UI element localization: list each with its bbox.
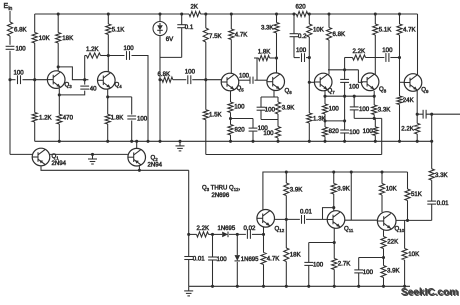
svg-text:51K: 51K <box>411 191 422 198</box>
svg-text:100: 100 <box>14 69 25 76</box>
Q5 emitter column <box>230 91 232 102</box>
wire <box>212 260 214 286</box>
svg-text:2.2K: 2.2K <box>401 126 414 133</box>
svg-text:6.8K: 6.8K <box>158 71 171 78</box>
wire <box>333 194 335 211</box>
wire Q4 emitter cap branch <box>108 96 132 98</box>
svg-text:100: 100 <box>349 83 360 90</box>
diode 1N695 horizontal <box>222 232 228 238</box>
wire Q1 emitter run <box>41 166 189 171</box>
wire Q8 base jog <box>358 70 362 83</box>
resistor 10K Q10 collector load <box>381 172 383 184</box>
wire <box>407 201 409 221</box>
capacitor 100 Q8 branch <box>350 106 359 108</box>
svg-text:1.8K: 1.8K <box>258 49 271 56</box>
svg-text:2.2K: 2.2K <box>353 48 366 55</box>
wire <box>381 195 383 212</box>
svg-text:1.2K: 1.2K <box>86 46 99 53</box>
capacitor 100 Q5 bypass <box>249 127 258 129</box>
wire Q6 collector <box>276 33 278 73</box>
svg-text:1.5K: 1.5K <box>209 112 222 119</box>
svg-text:E: E <box>4 3 9 10</box>
resistor 1.2K horizontal <box>85 55 87 57</box>
resistor 4.7K column Q9 <box>399 14 401 24</box>
Q6 emitter network <box>273 91 275 98</box>
svg-text:24K: 24K <box>403 97 414 104</box>
Q11 emitter network <box>333 228 335 258</box>
svg-text:1N695: 1N695 <box>241 257 259 263</box>
wire <box>181 28 183 58</box>
svg-text:5.1K: 5.1K <box>112 27 125 34</box>
resistor 2.2K chain <box>197 232 209 237</box>
resistor 5.1K column Q8 collector <box>374 14 376 24</box>
resistor 620 (series in rail) <box>296 11 307 16</box>
svg-text:1.8K: 1.8K <box>111 115 124 122</box>
svg-text:470: 470 <box>63 115 74 122</box>
svg-text:22K: 22K <box>387 239 398 246</box>
svg-text:6.8K: 6.8K <box>14 27 27 34</box>
svg-text:100: 100 <box>363 269 374 276</box>
svg-text:3.3K: 3.3K <box>261 25 274 32</box>
svg-text:3.9K: 3.9K <box>337 186 350 193</box>
svg-text:2N696: 2N696 <box>212 193 230 199</box>
wire <box>306 57 309 59</box>
wire 40pF to Q3 emitter <box>59 91 84 95</box>
resistor 100 Q5 emitter <box>228 102 233 113</box>
svg-text:0.2: 0.2 <box>298 33 307 40</box>
wire <box>399 105 401 142</box>
line Q12 collector bus <box>263 172 408 210</box>
svg-text:100: 100 <box>329 106 340 113</box>
bias chain wire <box>189 233 197 235</box>
wire <box>431 204 433 220</box>
wire <box>416 134 418 141</box>
resistor 3.3K column Q6 <box>276 14 278 23</box>
capacitor 100 Q6 left branch <box>260 97 262 107</box>
wire stub Q9 base <box>400 81 405 83</box>
wire <box>404 260 406 286</box>
svg-text:100: 100 <box>263 130 274 137</box>
wire to mid rail <box>34 122 36 141</box>
capacitor 100 interstage <box>187 75 189 84</box>
zener diode 6V column <box>159 14 161 22</box>
wire <box>229 233 246 235</box>
capacitor 100 to Q9 base <box>385 53 387 62</box>
svg-text:100: 100 <box>16 45 27 52</box>
wire <box>308 37 310 113</box>
svg-text:18K: 18K <box>290 252 301 259</box>
resistor 3.9K Q6 right branch <box>277 97 279 102</box>
wire Q11 bypass branch <box>309 242 335 244</box>
svg-text:4.7K: 4.7K <box>267 256 280 263</box>
svg-text:6V: 6V <box>166 36 174 43</box>
capacitor 100 column <box>212 234 214 257</box>
svg-text:4.7K: 4.7K <box>403 27 416 34</box>
svg-text:620: 620 <box>296 4 307 11</box>
wire to Q1 base <box>10 153 32 155</box>
svg-text:100: 100 <box>239 74 250 80</box>
wire input column <box>9 11 11 22</box>
wire riser to Q10 base link <box>350 172 352 220</box>
svg-text:10K: 10K <box>386 186 397 193</box>
wire rung lower <box>325 120 345 122</box>
transistor Q8 <box>361 73 379 91</box>
svg-text:7.5K: 7.5K <box>209 33 222 40</box>
Q7 emitter column <box>324 91 326 104</box>
resistor 5.1K <box>106 24 111 35</box>
ground mid rail <box>179 141 181 146</box>
svg-text:4.7K: 4.7K <box>235 32 248 39</box>
svg-text:10K: 10K <box>39 35 50 42</box>
Q3 emitter column <box>58 89 60 115</box>
resistor 10K <box>32 33 37 44</box>
wire Q12 base link to Q11 <box>275 218 300 220</box>
wire <box>188 260 190 287</box>
svg-text:820: 820 <box>329 128 340 135</box>
resistor 6.8K input <box>7 22 12 36</box>
resistor 3.9K Q11 load <box>333 172 335 184</box>
svg-text:0.01: 0.01 <box>437 200 449 207</box>
svg-text:10K: 10K <box>313 27 324 34</box>
diode 1N695 vertical <box>236 234 238 255</box>
wire rung Q7/Q8 emitters <box>325 95 374 97</box>
wire input column lower <box>9 51 11 155</box>
svg-text:3.3K: 3.3K <box>435 172 448 179</box>
wire <box>285 196 287 249</box>
wire <box>205 42 207 110</box>
capacitor 0.01 right column <box>427 200 436 202</box>
wire <box>58 124 60 141</box>
svg-text:100: 100 <box>349 129 360 136</box>
wire box bottom <box>261 119 278 121</box>
wire Q9 base column <box>399 35 401 96</box>
svg-text:3.3K: 3.3K <box>378 107 391 114</box>
svg-text:100: 100 <box>124 45 135 52</box>
resistor 10K column Q7 <box>308 14 310 24</box>
wire <box>324 114 326 127</box>
wire <box>306 218 327 220</box>
resistor 2.7K Q11 emitter <box>332 259 337 270</box>
svg-text:0.1: 0.1 <box>185 24 194 31</box>
transistor Q11 <box>327 211 345 229</box>
capacitor 0.1 column <box>181 14 183 25</box>
left bias column 10K/1.2K <box>34 14 36 33</box>
wire Q7 collector <box>328 40 330 74</box>
resistor 51K column <box>407 172 409 189</box>
wire <box>333 270 335 287</box>
svg-text:SeekIC.com: SeekIC.com <box>401 287 458 298</box>
top supply rail <box>35 13 189 15</box>
capacitor 0.2 column <box>293 14 295 34</box>
wire <box>209 233 223 235</box>
resistor 18K <box>56 33 61 44</box>
resistor 820 Q7 <box>322 127 327 137</box>
resistor 2.2K Q9 emitter <box>415 123 420 134</box>
svg-text:100: 100 <box>363 128 374 135</box>
wire 5.1K junction to 100 cap <box>108 55 124 57</box>
wire 7.5K column to lower bus <box>205 120 207 155</box>
wire Q8 collector <box>374 35 376 74</box>
transistor Q5 <box>221 73 239 91</box>
resistor 470 <box>57 114 62 124</box>
wire <box>308 265 310 286</box>
transistor Q3 <box>47 71 65 89</box>
wire <box>230 113 232 125</box>
wire <box>23 79 48 81</box>
svg-text:0.01: 0.01 <box>193 256 205 263</box>
wire branch up to Q11 collector node <box>323 208 334 220</box>
transistor Q4 <box>98 72 116 90</box>
wire <box>324 137 326 142</box>
resistor 4.7K column Q5 <box>230 14 232 29</box>
wire <box>358 273 360 286</box>
wire <box>293 37 295 58</box>
wire <box>107 35 109 72</box>
wire box bottom Q8 <box>354 117 382 119</box>
svg-text:100: 100 <box>217 256 228 263</box>
resistor 100 Q7 emitter <box>322 104 327 114</box>
svg-text:40: 40 <box>90 85 97 92</box>
transistor Q7 <box>314 73 332 91</box>
zener diode 6V in circle <box>153 22 167 36</box>
svg-text:1N695: 1N695 <box>218 226 236 232</box>
capacitor column 100/100 Q7 bypass <box>344 70 346 80</box>
svg-text:Q3 THRU Q12,: Q3 THRU Q12, <box>202 186 241 192</box>
wire <box>9 36 11 45</box>
wire 1.8K down to coupling node <box>256 58 258 80</box>
wire to Q10 collector node <box>396 219 432 221</box>
resistor 3.9K Q12 collector load <box>285 172 287 183</box>
capacitor 100 Q4 emitter <box>127 115 136 117</box>
svg-text:3.9K: 3.9K <box>290 187 303 194</box>
svg-text:1.2K: 1.2K <box>39 115 52 122</box>
svg-text:5.1K: 5.1K <box>379 27 392 34</box>
wire Q10 bypass branch <box>359 257 384 259</box>
resistor 3.9K Q10 lower <box>381 266 386 278</box>
svg-text:100: 100 <box>185 69 196 76</box>
wire to Q5 base <box>192 79 221 81</box>
capacitor 100 Q11 bypass <box>304 261 313 263</box>
resistor 1.8K <box>105 114 110 124</box>
wire 1.2K to 40pF branch <box>84 56 86 85</box>
resistor 3.3K right column <box>429 169 434 180</box>
wire <box>252 132 254 142</box>
Q10 emitter network <box>383 230 385 236</box>
wire bus riser <box>381 118 383 154</box>
wire Q5 base chain <box>160 79 162 81</box>
wire top rail right corner to Q9 collector <box>417 14 419 75</box>
svg-text:100: 100 <box>234 104 245 111</box>
wire <box>344 82 346 130</box>
svg-text:100: 100 <box>382 47 393 54</box>
svg-text:100: 100 <box>359 106 370 113</box>
wire <box>34 43 36 113</box>
svg-text:3.9K: 3.9K <box>282 105 295 112</box>
wire stub Q7 base <box>309 81 314 83</box>
capacitor 100 coupling <box>126 51 128 60</box>
capacitor 0.02 chain <box>246 230 248 239</box>
wire <box>366 57 385 59</box>
wire Q5 collector to Q6 base <box>239 79 250 81</box>
column 5.1K to Q4 <box>107 14 109 24</box>
wire <box>57 43 59 71</box>
resistor 18K <box>284 248 289 262</box>
capacitor 0.01 left column <box>188 234 190 256</box>
Q12 emitter network <box>263 227 265 253</box>
transistor Q2 <box>128 148 146 166</box>
svg-text:2K: 2K <box>191 4 198 11</box>
capacitor 100 upper <box>340 78 349 80</box>
lower bus wire <box>206 154 382 156</box>
svg-text:100: 100 <box>296 47 307 54</box>
wire <box>390 57 399 59</box>
resistor 1.2K vertical <box>32 113 37 123</box>
capacitor 0.01 link <box>301 215 303 224</box>
svg-text:6.8K: 6.8K <box>333 31 346 38</box>
svg-text:2.7K: 2.7K <box>338 261 351 268</box>
capacitor 100 Q5-Q6 coupling <box>249 77 251 84</box>
resistor 7.5K column <box>205 14 207 28</box>
wire Q2 emitter <box>138 166 140 170</box>
output coupling wire <box>417 113 423 115</box>
svg-text:0.01: 0.01 <box>300 209 312 216</box>
wire <box>344 133 346 141</box>
svg-text:2N94: 2N94 <box>148 162 163 169</box>
capacitor 100 Q10 bypass <box>354 269 363 271</box>
wire down to divider chain <box>188 170 190 234</box>
wire <box>107 124 109 141</box>
resistor 6.8K interstage <box>162 77 173 82</box>
wire Q2 collector stub <box>136 141 138 148</box>
wire <box>236 262 238 286</box>
collector column 18K <box>57 14 59 33</box>
resistor 10K output leg <box>404 220 406 248</box>
capacitor 100 Q7 base coupling <box>301 53 303 62</box>
mid ground rail <box>35 140 432 142</box>
resistor 2.2K interstage to Q9 <box>345 57 353 59</box>
wire Q3 base chain <box>10 79 16 81</box>
transistor Q12 <box>257 210 275 228</box>
resistor 1.8K feedback <box>270 57 277 59</box>
capacitor 100 input series <box>6 45 15 47</box>
transistor Q1 <box>32 148 50 166</box>
resistor 1.3K <box>307 113 312 123</box>
wire <box>431 180 433 201</box>
wire <box>252 233 264 235</box>
svg-text:3.9K: 3.9K <box>387 268 400 275</box>
resistor 4.7K Q12 emitter <box>261 253 266 265</box>
wire output to edge <box>426 113 460 115</box>
wire Q3 collector to Q4 base jog <box>58 67 88 80</box>
svg-text:0.02: 0.02 <box>244 225 256 232</box>
wire <box>263 265 265 287</box>
svg-text:100: 100 <box>265 106 276 113</box>
svg-text:2.2K: 2.2K <box>197 225 210 232</box>
svg-text:100: 100 <box>137 115 148 122</box>
svg-text:100: 100 <box>313 262 324 269</box>
resistor 3.3K Q8 branch <box>373 96 375 105</box>
wire to Q7 base <box>294 57 300 59</box>
wire <box>383 249 385 266</box>
svg-text:10K: 10K <box>408 251 419 258</box>
resistor 6.8K column Q7 collector <box>328 14 330 28</box>
svg-text:18K: 18K <box>62 35 73 42</box>
resistor 820 Q5 <box>228 125 233 136</box>
wire <box>285 262 287 287</box>
capacitor output <box>422 110 424 119</box>
wire right column down <box>431 114 433 169</box>
resistor 2K (series in rail) <box>189 11 201 16</box>
transistor Q9 <box>404 74 422 92</box>
wire zener down <box>159 36 161 142</box>
Q9 emitter column <box>416 90 418 123</box>
ground bottom rail <box>188 286 190 291</box>
wire 2.2K corner down <box>344 58 346 70</box>
Q4 emitter column <box>107 89 109 114</box>
resistor 100 Q8 lower <box>374 118 376 127</box>
wire <box>173 79 187 81</box>
wire <box>255 79 268 81</box>
wire <box>230 135 232 141</box>
resistor 22K Q10 emitter <box>381 237 386 249</box>
Q8 emitter network <box>373 91 375 96</box>
wire <box>308 123 310 141</box>
wire Q7 collector rung <box>328 69 358 71</box>
wire join zener and 0.1 <box>160 56 182 58</box>
bottom ground rail <box>189 285 410 287</box>
wire <box>132 56 149 142</box>
capacitor 100 lower <box>340 129 349 131</box>
wire <box>383 278 385 287</box>
wire Q11 to Q10 base <box>345 219 378 221</box>
transistor Q6 <box>267 73 285 91</box>
wire Q5 collector <box>230 40 232 75</box>
capacitor 100 to Q3 base <box>17 75 19 84</box>
resistor 24K <box>397 96 402 105</box>
resistor 1.5K <box>203 110 208 120</box>
ground Q1 link <box>92 154 94 159</box>
resistor 100 Q6 emitter lower <box>277 120 279 127</box>
capacitor 40 <box>80 85 89 87</box>
svg-text:820: 820 <box>235 127 246 134</box>
svg-text:2N94: 2N94 <box>52 160 67 167</box>
wire <box>131 121 133 142</box>
wire Q5 bypass branch <box>231 118 254 120</box>
transistor Q10 <box>377 212 396 231</box>
wire Q1-Q2 link <box>50 153 128 155</box>
